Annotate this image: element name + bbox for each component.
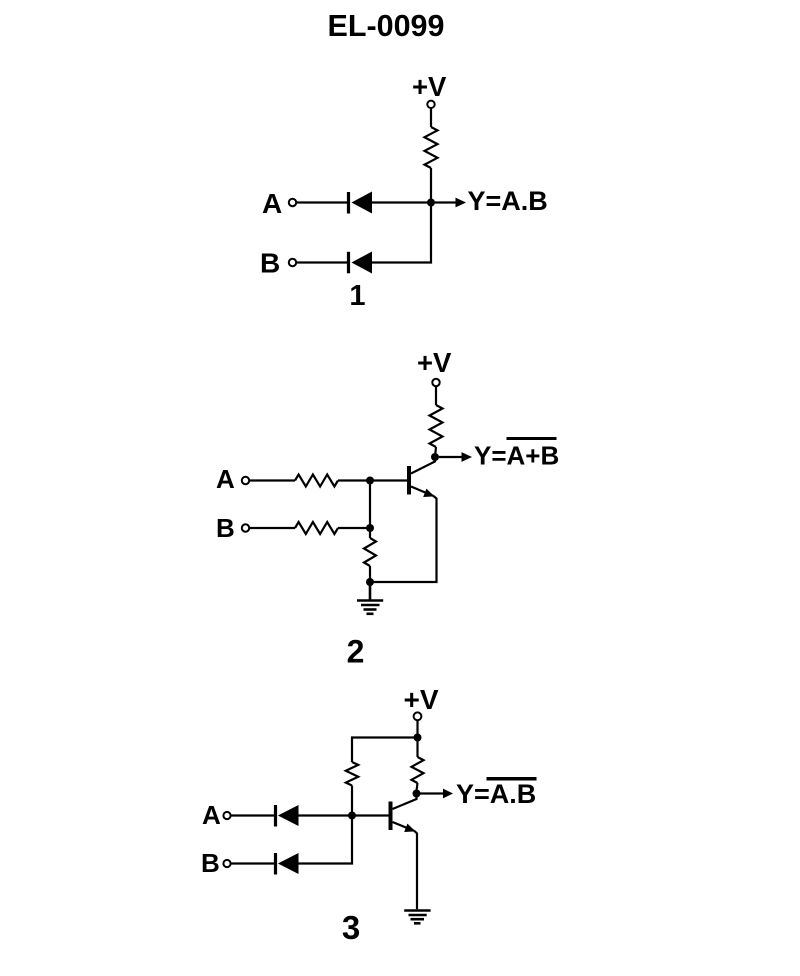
terminal A (circuit 2) xyxy=(242,477,249,484)
resistor R3 base pull-down (circuit 2) xyxy=(364,538,376,566)
output arrow (circuit 2) xyxy=(439,452,472,462)
resistor R6 collector pull-up (circuit 3) xyxy=(412,757,424,783)
diode D2 input B (circuit 1) xyxy=(347,252,372,274)
node Y1 junction xyxy=(427,199,435,207)
node supply junction (circuit 3) xyxy=(414,734,422,742)
resistor R2 collector pull-up (circuit 2) xyxy=(430,405,443,447)
wire RA to base node A xyxy=(338,479,407,481)
wire D1 to node Y1 xyxy=(372,201,431,203)
diode D4 input B (circuit 3) xyxy=(274,853,299,875)
ground symbol (circuit 2) xyxy=(357,582,383,614)
svg-text:A: A xyxy=(202,800,221,830)
resistor RB input B (circuit 2) xyxy=(295,522,338,534)
transistor Q2 base bar (circuit 3) xyxy=(389,802,393,831)
output arrow (circuit 3) xyxy=(420,789,453,799)
wire supply node to left branch corner xyxy=(352,738,418,763)
svg-text:Y=A.B: Y=A.B xyxy=(456,779,536,809)
output arrow (circuit 1) xyxy=(435,198,466,208)
label Y=A+B with overline (circuit 2) xyxy=(474,437,559,471)
wire B to D4 xyxy=(231,862,274,864)
wire R3 to ground node xyxy=(369,566,371,582)
resistor R5 left pull-up (circuit 3) xyxy=(346,762,358,786)
wire D2 to node Y1 corner xyxy=(372,203,431,263)
terminal A (circuit 3) xyxy=(223,812,230,819)
wire A to RA xyxy=(249,479,295,481)
wire emitter to ground (circuit 3) xyxy=(415,831,418,909)
node base A junction (circuit 2) xyxy=(366,477,374,485)
wire RB to node B xyxy=(338,527,370,529)
svg-text:+V: +V xyxy=(412,71,447,102)
svg-text:B: B xyxy=(201,848,220,878)
svg-text:A: A xyxy=(216,464,235,494)
terminal B (circuit 2) xyxy=(242,524,249,531)
svg-text:Y=A.B: Y=A.B xyxy=(468,186,548,216)
transistor Q1 emitter lead with arrow xyxy=(411,487,435,498)
wire emitter down to bottom node (circuit 2) xyxy=(370,496,437,582)
wire A to D3 xyxy=(231,814,274,816)
svg-text:B: B xyxy=(216,513,235,543)
wire +V terminal to R1 xyxy=(430,108,432,127)
diode D3 input A (circuit 3) xyxy=(274,805,299,827)
transistor Q2 collector lead xyxy=(393,795,417,809)
wire D4 up to base node corner xyxy=(299,819,353,864)
wire A to D1 xyxy=(296,201,347,203)
wire D3 to base node xyxy=(299,814,353,816)
resistor R1 pull-up (circuit 1) xyxy=(425,127,438,168)
wire B to D2 xyxy=(296,261,347,263)
terminal +V (circuit 3) xyxy=(414,712,422,720)
terminal B (circuit 3) xyxy=(223,860,230,867)
svg-text:B: B xyxy=(260,248,280,279)
wire +V terminal to supply node xyxy=(416,720,418,734)
wire +V terminal to R2 xyxy=(435,386,437,405)
svg-text:Y=A+B: Y=A+B xyxy=(474,441,559,471)
terminal A (circuit 1) xyxy=(289,199,296,206)
wire R6 to collector node xyxy=(417,783,418,791)
node collector junction (circuit 3) xyxy=(413,790,421,798)
transistor Q1 base bar (circuit 2) xyxy=(407,466,411,495)
wire R1 to node Y1 xyxy=(430,168,432,203)
node ground junction (circuit 2) xyxy=(366,578,374,586)
transistor Q2 emitter lead with arrow xyxy=(393,822,416,832)
svg-text:+V: +V xyxy=(404,684,439,715)
wire B to RB xyxy=(249,527,295,529)
svg-text:3: 3 xyxy=(342,909,360,946)
node base junction (circuit 3) xyxy=(348,812,356,820)
svg-text:A: A xyxy=(262,188,282,219)
transistor Q1 collector lead xyxy=(411,458,435,474)
diode D1 input A (circuit 1) xyxy=(347,192,372,214)
wire node A down to R3 xyxy=(369,481,371,539)
wire supply node to R6 xyxy=(416,738,418,758)
wire R5 to base node xyxy=(351,786,353,814)
wire R2 to collector node xyxy=(435,447,436,457)
svg-text:EL-0099: EL-0099 xyxy=(328,9,445,43)
terminal +V (circuit 1) xyxy=(427,101,434,108)
svg-text:2: 2 xyxy=(347,634,365,670)
resistor RA input A (circuit 2) xyxy=(295,475,338,487)
svg-text:1: 1 xyxy=(349,280,365,312)
ground symbol (circuit 3) xyxy=(404,911,430,924)
node B junction (circuit 2) xyxy=(366,524,374,532)
label Y=A.B with overline (circuit 3) xyxy=(456,777,537,809)
terminal +V (circuit 2) xyxy=(432,379,439,386)
terminal B (circuit 1) xyxy=(289,259,296,266)
svg-text:+V: +V xyxy=(417,347,452,378)
wire base node to Q2 base xyxy=(352,814,389,816)
node collector junction (circuit 2) xyxy=(431,453,439,461)
